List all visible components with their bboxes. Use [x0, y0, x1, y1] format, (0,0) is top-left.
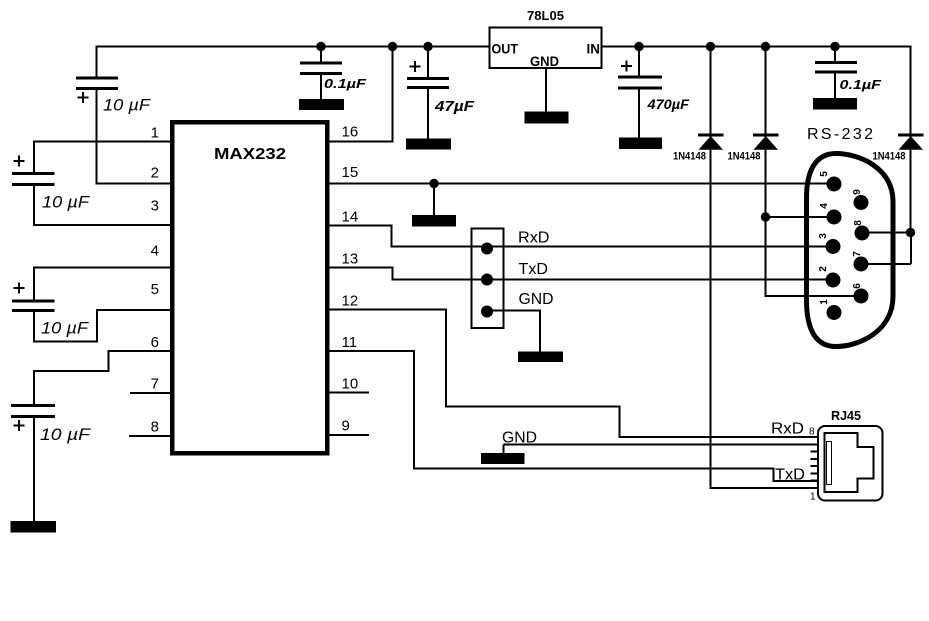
- svg-text:16: 16: [342, 124, 359, 141]
- wire rail to capacitor C7: [638, 46, 640, 78]
- diode D1 cathode bar: [698, 134, 724, 137]
- connector J2 DB9 pin 7: [854, 257, 869, 272]
- svg-text:1: 1: [810, 492, 816, 503]
- wire pin 6 stepped to capacitor C4: [34, 350, 172, 406]
- svg-text:RxD: RxD: [518, 230, 550, 247]
- svg-text:10 µF: 10 µF: [40, 425, 92, 444]
- connector J1 3-pin header box: [472, 229, 504, 329]
- wire pin 10 stub: [326, 392, 369, 394]
- svg-text:9: 9: [342, 418, 350, 435]
- wire 78L05 GND pin to ground: [545, 68, 547, 113]
- wire C5 to ground: [320, 74, 322, 101]
- wire from pin4 wire down to capacitor C3: [33, 267, 35, 302]
- svg-text:10 µF: 10 µF: [41, 319, 90, 338]
- node junction dot on D3 wire: [906, 228, 915, 237]
- wire pin 9 stub: [326, 434, 369, 436]
- capacitor C5 0.1uF plates: [300, 63, 342, 74]
- ground bar under header GND: [518, 352, 563, 363]
- connector J1 pin 3 dot: [481, 306, 493, 318]
- connector J2 DB9 pin 3: [826, 239, 841, 254]
- capacitor C3 plus sign: [14, 283, 25, 294]
- svg-text:RJ45: RJ45: [831, 408, 861, 423]
- wire C6 to ground: [427, 88, 429, 140]
- svg-text:1N4148: 1N4148: [673, 151, 706, 163]
- wire pin 11 stepped to RJ45 pin 2: [326, 350, 818, 481]
- connector J3 RJ45 body: [818, 426, 883, 501]
- wire from C3 bottom plate detour to pin 5: [34, 310, 172, 342]
- op-amp U1 MAX232 body box: [172, 122, 327, 453]
- node junction dot at 0.1uF C8 tap: [830, 42, 839, 51]
- svg-text:5: 5: [151, 281, 159, 298]
- svg-text:1: 1: [819, 299, 830, 305]
- wire rail to capacitor C5: [320, 46, 322, 64]
- node junction dot on D2 wire: [761, 212, 770, 221]
- svg-text:0.1µF: 0.1µF: [324, 76, 367, 91]
- capacitor C2 10uF plates: [12, 174, 55, 185]
- svg-text:8: 8: [809, 427, 815, 438]
- regulator U2 78L05 body box: [490, 28, 602, 69]
- svg-text:TxD: TxD: [519, 261, 549, 278]
- wire pin 3 horizontal: [33, 224, 172, 226]
- connector J2 DB9 pin 9: [854, 195, 869, 210]
- wire pin 2 horizontal: [96, 183, 173, 185]
- svg-text:1: 1: [151, 125, 159, 142]
- svg-text:13: 13: [342, 251, 359, 268]
- svg-text:6: 6: [852, 283, 863, 289]
- svg-text:8: 8: [853, 220, 864, 226]
- ground bar under C4: [11, 521, 57, 533]
- connector J2 DB9 pin 4: [827, 210, 842, 225]
- svg-text:RxD: RxD: [771, 421, 804, 438]
- capacitor C3 10uF plates: [12, 301, 55, 311]
- ground bar under pin15 junction: [412, 215, 456, 227]
- ground bar under C7: [619, 138, 662, 150]
- wire pin 1 horizontal: [34, 141, 172, 143]
- svg-text:47µF: 47µF: [434, 98, 475, 115]
- capacitor C1 plus sign: [78, 92, 89, 103]
- diode D2 cathode bar: [753, 134, 779, 137]
- capacitor C7 plus sign: [621, 61, 632, 72]
- wire DB9 pin 8 to D3 junction: [861, 232, 911, 234]
- svg-text:GND: GND: [530, 54, 559, 69]
- diode D2 1N4148 vertical wire down to DB9 pin 6: [765, 46, 862, 297]
- node junction dot at diode D1 tap: [706, 42, 715, 51]
- wire pin 16 to rail: [326, 46, 393, 143]
- wire pin 14 stepped RxD line to DB9 pin 3: [326, 225, 833, 247]
- svg-text:9: 9: [852, 189, 863, 195]
- connector J3 RJ45 slot: [827, 442, 832, 485]
- svg-text:15: 15: [342, 164, 359, 181]
- ground bar mid bottom: [481, 453, 525, 464]
- diode D3 cathode bar: [898, 134, 924, 137]
- svg-text:GND: GND: [519, 291, 554, 308]
- connector J2 DB9 pin 8: [855, 226, 870, 241]
- node junction dot at 47uF C6 tap: [423, 42, 432, 51]
- ground bar under 78L05: [525, 112, 569, 124]
- node junction dot at 470uF C7 tap: [634, 42, 643, 51]
- capacitor C2 plus sign: [14, 156, 25, 167]
- wire pin 8 stub: [129, 435, 172, 437]
- svg-text:7: 7: [852, 251, 863, 257]
- svg-text:10: 10: [342, 376, 359, 393]
- svg-text:10 µF: 10 µF: [103, 96, 152, 115]
- diode D2 triangle: [754, 136, 779, 150]
- node junction dot at diode D2 tap: [761, 42, 770, 51]
- wire from rail down to capacitor C1: [96, 46, 98, 79]
- node junction dot at pin16 tap: [388, 42, 397, 51]
- wire rail to capacitor C8: [834, 46, 836, 63]
- svg-text:78L05: 78L05: [527, 9, 564, 23]
- svg-text:4: 4: [151, 243, 159, 260]
- wire rail to capacitor C6: [427, 46, 429, 79]
- wire pin 13 stepped TxD line to DB9 pin 2: [326, 267, 833, 280]
- capacitor C6 47uF plates: [407, 79, 449, 88]
- svg-text:IN: IN: [587, 42, 601, 57]
- wire pin 4 horizontal: [34, 267, 172, 269]
- svg-text:14: 14: [342, 209, 359, 226]
- svg-text:12: 12: [342, 293, 359, 310]
- wire pin 12 stepped to RJ45 pin 8: [326, 309, 818, 438]
- node junction dot at 0.1uF C5 tap: [316, 42, 325, 51]
- connector J3 RJ45 pin ticks: [811, 437, 819, 488]
- svg-text:11: 11: [342, 334, 358, 351]
- svg-text:10 µF: 10 µF: [42, 193, 91, 212]
- wire mid GND to RJ45 pin 7: [504, 445, 819, 454]
- svg-text:470µF: 470µF: [646, 96, 689, 112]
- svg-text:5: 5: [819, 171, 830, 177]
- svg-text:2: 2: [151, 165, 159, 182]
- wire C8 to ground: [834, 72, 836, 99]
- svg-text:1N4148: 1N4148: [728, 151, 761, 163]
- ground bar under C8: [813, 98, 857, 110]
- wire header GND pin to ground: [487, 310, 540, 353]
- connector J2 DB9 pin 6: [854, 289, 869, 304]
- svg-text:1N4148: 1N4148: [873, 151, 906, 163]
- capacitor C6 plus sign: [410, 61, 421, 72]
- svg-text:OUT: OUT: [492, 42, 519, 57]
- svg-text:MAX232: MAX232: [214, 146, 286, 163]
- svg-text:8: 8: [151, 419, 159, 436]
- ground bar under C5: [299, 99, 344, 110]
- node junction dot on pin15 wire: [429, 179, 438, 188]
- svg-text:0.1µF: 0.1µF: [840, 77, 883, 92]
- wire from pin1 wire down to capacitor C2: [33, 141, 35, 175]
- wire pin15 junction to ground: [433, 184, 435, 217]
- connector J2 DB9 outline: [807, 154, 894, 347]
- svg-text:3: 3: [818, 233, 829, 239]
- connector J1 pin 1 dot: [481, 243, 493, 255]
- diode D3 1N4148 vertical wire: [910, 46, 912, 233]
- connector J3 RJ45 jack opening: [825, 433, 874, 492]
- wire supply rail right segment: [602, 46, 912, 48]
- capacitor C7 470uF plates: [618, 77, 662, 88]
- svg-text:3: 3: [151, 198, 159, 215]
- ground bar under C6: [406, 139, 451, 150]
- diode D1 1N4148 vertical wire down to RJ45 pin 1: [710, 46, 819, 489]
- wire D2 junction to DB9 pin 4: [766, 216, 835, 218]
- diode D3 triangle: [899, 136, 924, 150]
- svg-text:6: 6: [151, 334, 159, 351]
- wire pin 7 stub: [130, 392, 172, 394]
- svg-text:TxD: TxD: [775, 467, 805, 484]
- svg-text:4: 4: [819, 203, 830, 209]
- diode D1 triangle: [699, 136, 724, 150]
- svg-text:7: 7: [151, 376, 159, 393]
- connector J2 DB9 pin 1: [827, 305, 842, 320]
- connector J1 pin 2 dot: [481, 274, 493, 286]
- wire pin 15 to DB9 pin 5: [326, 183, 834, 185]
- wire from C2 bottom plate down to pin 3 wire: [33, 185, 35, 227]
- capacitor C1 10uF plates: [76, 78, 118, 89]
- capacitor C4 10uF plates: [11, 406, 55, 417]
- wire C7 to ground: [638, 88, 640, 139]
- wire DB9 pin 7 to D3 junction: [861, 233, 911, 265]
- connector J2 DB9 pin 5: [827, 177, 842, 192]
- wire from C1 bottom plate down to pin 2: [96, 89, 98, 185]
- connector J2 DB9 pin 2: [826, 273, 841, 288]
- wire from C4 bottom plate to ground: [33, 417, 35, 523]
- wire supply rail left segment: [97, 46, 490, 48]
- svg-text:2: 2: [818, 266, 829, 272]
- capacitor C4 plus sign: [14, 420, 25, 431]
- capacitor C8 0.1uF plates: [815, 63, 857, 73]
